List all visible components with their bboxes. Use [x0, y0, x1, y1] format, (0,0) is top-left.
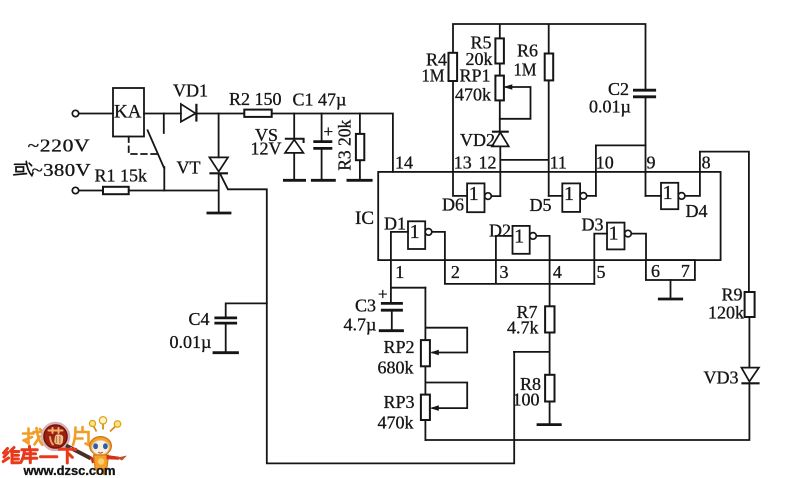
svg-text:D1: D1: [384, 214, 406, 234]
svg-text:+: +: [378, 285, 388, 304]
svg-text:680k: 680k: [378, 358, 414, 378]
svg-text:RP2: RP2: [384, 337, 415, 357]
svg-text:7: 7: [681, 261, 690, 281]
svg-text:1M: 1M: [514, 60, 537, 80]
svg-text:VD3: VD3: [704, 368, 739, 388]
svg-text:RP1: RP1: [460, 66, 491, 86]
svg-text:1: 1: [395, 262, 404, 282]
svg-text:11: 11: [550, 153, 567, 173]
svg-text:R1 15k: R1 15k: [95, 166, 148, 186]
svg-text:RP3: RP3: [384, 392, 415, 412]
svg-text:9: 9: [647, 153, 656, 173]
svg-text:D5: D5: [530, 195, 552, 215]
svg-text:~220V: ~220V: [28, 136, 91, 156]
svg-text:R9: R9: [722, 285, 743, 305]
svg-text:13: 13: [454, 153, 472, 173]
svg-text:+: +: [324, 122, 334, 141]
svg-text:KA: KA: [114, 102, 142, 123]
svg-text:1: 1: [410, 221, 420, 243]
svg-text:4: 4: [553, 262, 562, 282]
svg-text:3: 3: [500, 262, 509, 282]
svg-text:www.dzsc.com: www.dzsc.com: [23, 463, 116, 478]
svg-text:R2 150: R2 150: [229, 89, 282, 109]
svg-text:1: 1: [609, 223, 619, 245]
svg-text:VT: VT: [177, 158, 201, 178]
svg-text:5: 5: [597, 262, 606, 282]
svg-text:1: 1: [663, 182, 673, 204]
svg-text:VD1: VD1: [173, 81, 208, 101]
svg-text:1M: 1M: [422, 66, 445, 86]
svg-text:12: 12: [479, 153, 497, 173]
svg-text:2: 2: [451, 262, 460, 282]
svg-text:C1 47µ: C1 47µ: [293, 90, 347, 110]
svg-text:IC: IC: [355, 208, 374, 229]
svg-text:D2: D2: [489, 221, 511, 241]
svg-text:R3 20k: R3 20k: [335, 120, 355, 171]
svg-text:D6: D6: [442, 195, 464, 215]
svg-text:14: 14: [395, 153, 413, 173]
svg-text:1: 1: [469, 183, 479, 205]
svg-text:~380V: ~380V: [32, 161, 91, 180]
svg-text:D3: D3: [582, 215, 604, 235]
svg-text:VD2: VD2: [460, 130, 495, 150]
svg-text:470k: 470k: [378, 413, 414, 433]
svg-text:4.7µ: 4.7µ: [344, 315, 377, 335]
svg-text:100: 100: [513, 390, 540, 410]
svg-text:R6: R6: [517, 41, 538, 61]
svg-text:120k: 120k: [708, 303, 744, 323]
svg-text:6: 6: [651, 261, 660, 281]
svg-text:10: 10: [596, 153, 614, 173]
svg-text:8: 8: [702, 153, 711, 173]
svg-text:D4: D4: [686, 201, 708, 221]
svg-text:0.01µ: 0.01µ: [589, 97, 631, 117]
svg-text:C4: C4: [189, 309, 210, 329]
svg-text:C3: C3: [355, 296, 376, 316]
svg-text:4.7k: 4.7k: [507, 318, 539, 338]
svg-text:1: 1: [564, 183, 574, 205]
svg-text:470k: 470k: [455, 85, 491, 105]
svg-text:0.01µ: 0.01µ: [170, 332, 212, 352]
svg-text:12V: 12V: [251, 139, 282, 159]
svg-text:1: 1: [514, 226, 524, 248]
